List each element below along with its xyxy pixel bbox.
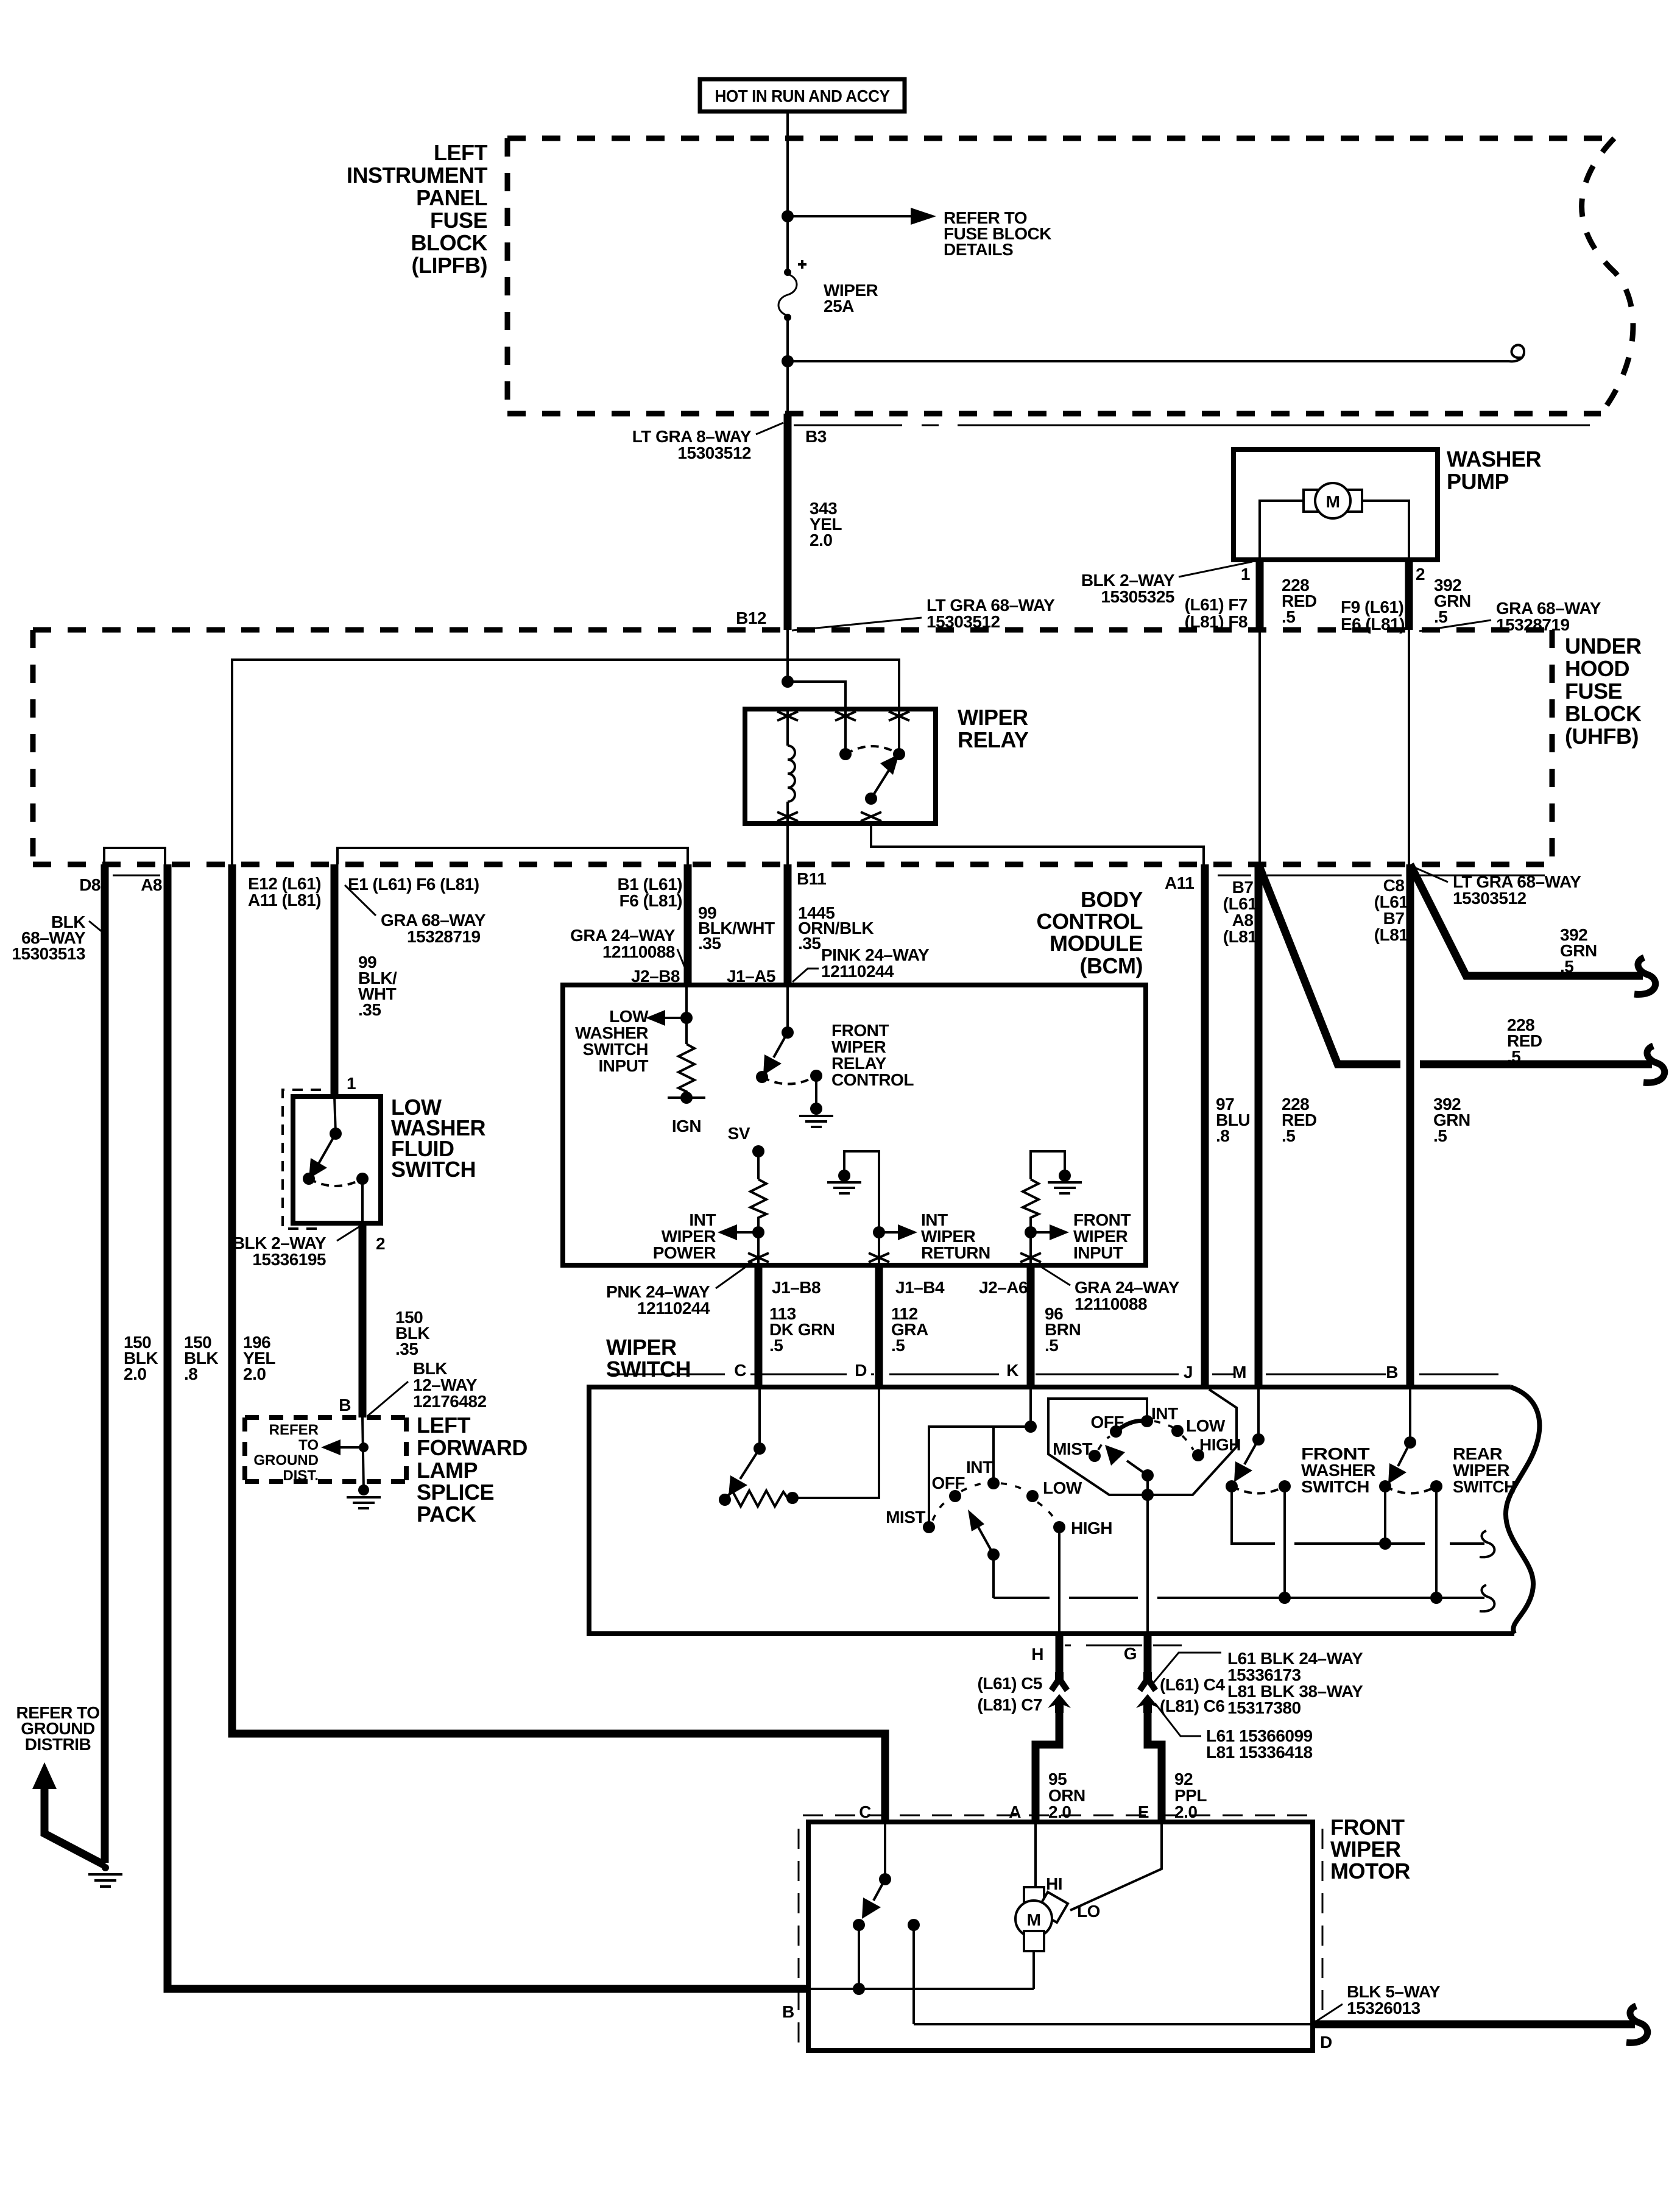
svg-text:1: 1 <box>347 1074 356 1093</box>
svg-text:H: H <box>1031 1645 1043 1664</box>
svg-text:B11: B11 <box>797 869 826 888</box>
wire E12 run to motor C <box>232 864 885 1822</box>
inline connector H male arrow <box>1048 1694 1071 1713</box>
wire B12 feed inside UHFB <box>786 630 789 683</box>
svg-text:A8: A8 <box>141 875 162 894</box>
svg-text:LAMP: LAMP <box>417 1458 478 1483</box>
wire pin H stub <box>1056 1636 1064 1678</box>
wire wiper return line <box>994 1585 1494 1611</box>
svg-text:15326013: 15326013 <box>1347 1999 1421 2018</box>
connector label BLK 2-WAY 15305325 <box>1081 562 1252 606</box>
svg-text:J2–A6: J2–A6 <box>979 1278 1028 1297</box>
terminal IGN <box>668 1092 705 1135</box>
connector face lines below wiper switch <box>1065 1645 1182 1647</box>
wire rear right contact drop <box>1435 1486 1438 1598</box>
pin labels B7 (L61) A8 (L81) <box>1223 878 1262 946</box>
wire front washer right contact drop <box>1283 1486 1286 1598</box>
ground BCM int wiper return <box>827 1151 879 1232</box>
svg-text:B: B <box>339 1396 351 1414</box>
svg-text:2.0: 2.0 <box>810 531 832 549</box>
svg-text:HI: HI <box>1046 1874 1062 1893</box>
svg-text:(L61) F7: (L61) F7 <box>1185 595 1248 614</box>
pin X mark BCM J1-B4 <box>869 1253 889 1262</box>
pin labels F9 (L61) E6 (L81) <box>1341 598 1405 634</box>
fuse WIPER 25A <box>778 260 878 321</box>
svg-text:(L61) C5: (L61) C5 <box>978 1674 1042 1693</box>
connector label LT GRA 68-WAY 15303512 at B12 <box>792 596 1055 631</box>
rear wiper switch feed from pin B <box>1388 1389 1416 1484</box>
connector face lines above wiper switch <box>609 1374 1498 1375</box>
connector face lines below UHFB <box>113 875 1545 877</box>
svg-text:HIGH: HIGH <box>1199 1435 1241 1454</box>
svg-text:WIPER: WIPER <box>606 1335 677 1360</box>
svg-text:WIPER: WIPER <box>958 705 1028 730</box>
svg-text:RELAY: RELAY <box>958 727 1029 752</box>
svg-text:2: 2 <box>376 1234 385 1253</box>
pin labels E12 (L61) A11 (L81) <box>248 874 321 909</box>
svg-text:.5: .5 <box>1433 1126 1447 1145</box>
ground BCM front wiper input <box>1048 1170 1082 1193</box>
svg-text:2.0: 2.0 <box>1174 1802 1197 1821</box>
pin labels (L61) F7 (L81) F8 <box>1185 595 1248 631</box>
svg-text:(BCM): (BCM) <box>1080 953 1143 978</box>
splice pack dashed box <box>245 1417 406 1481</box>
svg-text:B3: B3 <box>805 427 827 446</box>
svg-text:M: M <box>1326 492 1340 511</box>
svg-text:FUSE: FUSE <box>430 208 487 233</box>
svg-text:LOW: LOW <box>1043 1478 1082 1497</box>
connector label LT GRA 68-WAY 15303512 at C8 <box>1414 867 1581 908</box>
wire 228 RED .5 (B7 to M) <box>1258 864 1317 1385</box>
dashed outline motor box <box>799 1815 1322 2044</box>
washer pump box <box>1234 447 1542 560</box>
wire D8 ground run <box>101 864 109 1863</box>
wire label 1445 ORN/BLK .35 <box>798 903 874 953</box>
svg-text:15328719: 15328719 <box>407 927 481 946</box>
wire label 150 BLK .35 <box>395 1308 429 1358</box>
wire motor bottom brush to B <box>811 1951 1034 1995</box>
relay fixed contact left <box>839 709 852 760</box>
svg-text:SV: SV <box>728 1124 750 1143</box>
svg-text:12110244: 12110244 <box>821 962 894 981</box>
connector face line below LIPFB <box>794 425 1590 426</box>
wire 92 PPL 2.0 to motor E <box>1148 1709 1162 1822</box>
svg-text:BLOCK: BLOCK <box>1565 701 1642 726</box>
detent switch left arrow <box>968 1509 1000 1561</box>
connector bracket E1 B1 <box>337 848 688 864</box>
wire washer pump pin1 inside UHFB <box>1258 630 1261 864</box>
wire motor A to HI brush <box>1034 1824 1037 1887</box>
detent switch right arrow <box>1105 1445 1154 1481</box>
svg-text:.8: .8 <box>1216 1126 1229 1145</box>
connector label BLK 68-WAY 15303513 <box>12 913 102 963</box>
svg-text:CONTROL: CONTROL <box>831 1070 914 1089</box>
wire label 99 BLK/ WHT .35 (E1) <box>358 953 397 1019</box>
wire label 150 BLK 2.0 <box>124 1333 158 1383</box>
svg-text:J1–B4: J1–B4 <box>895 1278 945 1297</box>
front washer switch contacts <box>1226 1444 1375 1496</box>
connector label GRA 68-WAY 15328719 <box>1419 599 1601 634</box>
pin X mark relay bottom right <box>861 812 881 821</box>
module box BCM <box>563 887 1146 1265</box>
svg-text:15303512: 15303512 <box>1453 889 1526 908</box>
resistor BCM washer input <box>679 1044 694 1098</box>
svg-text:G: G <box>1124 1644 1137 1663</box>
UHFB title <box>1565 634 1642 749</box>
wire 96 BRN .5 <box>1031 1268 1081 1385</box>
svg-text:(LIPFB): (LIPFB) <box>412 253 487 278</box>
washer switch feed from pin M <box>1234 1389 1265 1482</box>
svg-text:C: C <box>859 1802 871 1821</box>
inline connector G female <box>1137 1672 1158 1692</box>
pin X mark relay bottom left <box>777 812 798 821</box>
wire label 92 PPL 2.0 <box>1174 1770 1207 1821</box>
relay coil <box>788 709 795 824</box>
pin labels D8 A8 <box>79 875 162 894</box>
wire left detent common to return line <box>992 1555 995 1598</box>
motor M washer pump <box>1304 483 1362 518</box>
delay resistor circuit from pin C <box>729 1389 766 1496</box>
svg-text:E1 (L61) F6 (L81): E1 (L61) F6 (L81) <box>348 875 479 894</box>
wire BLK 5-WAY out of pin D <box>1313 2006 1648 2042</box>
wire label 196 YEL 2.0 <box>243 1333 275 1383</box>
svg-text:INPUT: INPUT <box>599 1056 649 1075</box>
svg-text:REFER: REFER <box>269 1422 319 1438</box>
pin 2 stub washer pump <box>1405 560 1413 630</box>
fuse block UHFB dashed box <box>33 630 1552 864</box>
svg-text:F9 (L61): F9 (L61) <box>1341 598 1403 616</box>
svg-text:15336195: 15336195 <box>252 1250 326 1269</box>
wire washer out line continued <box>1294 1531 1494 1557</box>
svg-text:2.0: 2.0 <box>1048 1802 1071 1821</box>
wire A8 ground run <box>168 864 808 1989</box>
svg-text:K: K <box>1006 1361 1018 1380</box>
wire 392 GRN .5 branch to rear washer feed <box>1410 864 1656 994</box>
svg-text:.8: .8 <box>184 1364 197 1383</box>
BCM front wiper relay control driver <box>756 987 914 1089</box>
svg-text:SWITCH: SWITCH <box>391 1157 476 1182</box>
svg-text:15317380: 15317380 <box>1227 1698 1301 1717</box>
svg-text:2: 2 <box>1416 565 1425 584</box>
motor M front wiper <box>1015 1874 1100 1951</box>
wire washer pump motor to pin 2 <box>1362 501 1409 559</box>
svg-text:A11: A11 <box>1165 874 1194 892</box>
connector label LT GRA 8-WAY 15303512 <box>632 423 783 462</box>
svg-text:LEFT: LEFT <box>434 140 487 165</box>
svg-text:2.0: 2.0 <box>124 1364 146 1383</box>
resistor BCM front wiper input <box>1023 1151 1065 1232</box>
wire K to detent common <box>929 1389 1037 1527</box>
svg-text:MIST: MIST <box>1053 1439 1092 1458</box>
svg-text:WIPER: WIPER <box>1330 1837 1401 1862</box>
svg-text:.35: .35 <box>395 1340 418 1358</box>
svg-text:C: C <box>734 1361 746 1380</box>
pin X mark BCM J2-A6 <box>1020 1253 1041 1262</box>
svg-text:.35: .35 <box>798 934 821 953</box>
resistor wiper delay <box>719 1389 879 1506</box>
svg-text:(UHFB): (UHFB) <box>1565 724 1639 749</box>
node junction to long feed wire <box>782 355 794 367</box>
svg-text:PACK: PACK <box>417 1502 476 1527</box>
svg-text:HOT IN RUN AND ACCY: HOT IN RUN AND ACCY <box>715 86 891 105</box>
svg-text:(L81) C6: (L81) C6 <box>1160 1696 1224 1715</box>
splice node and arrow <box>321 1417 369 1490</box>
svg-text:LOW: LOW <box>1186 1416 1226 1435</box>
svg-text:M: M <box>1027 1910 1041 1929</box>
svg-text:INSTRUMENT: INSTRUMENT <box>347 163 487 188</box>
node INT WIPER RETURN arrow <box>873 1210 990 1263</box>
svg-text:FUSE: FUSE <box>1565 679 1622 704</box>
power label HOT IN RUN AND ACCY <box>700 79 905 111</box>
svg-text:D: D <box>1320 2033 1332 2052</box>
svg-text:DIST.: DIST. <box>283 1467 319 1484</box>
inline connector G male arrow <box>1136 1694 1159 1713</box>
svg-text:HOOD: HOOD <box>1565 656 1629 681</box>
svg-text:MODULE: MODULE <box>1050 931 1143 956</box>
wire long feed inside LIPFB with curl end <box>788 345 1524 361</box>
pin B11 stub <box>784 864 792 985</box>
wire front washer left contact to out line <box>1232 1486 1275 1544</box>
motor park switch from pin C <box>853 1824 920 2024</box>
pin 1 stub washer pump <box>1256 560 1264 630</box>
connector label PNK 24-WAY 12110244 <box>606 1262 752 1318</box>
connector label PINK 24-WAY 12110244 upper <box>792 945 930 982</box>
svg-text:UNDER: UNDER <box>1565 634 1642 658</box>
arrow refer to fuse block details <box>788 208 1051 259</box>
octagon link J to right detent INT <box>1048 1389 1237 1495</box>
svg-text:DETAILS: DETAILS <box>944 240 1013 259</box>
connector label GRA 24-WAY 12110088 lower <box>1036 1263 1180 1313</box>
svg-text:.5: .5 <box>1282 1126 1295 1145</box>
svg-text:.35: .35 <box>358 1000 381 1019</box>
ground left distribution <box>88 1864 122 1887</box>
splice pack title LEFT FORWARD LAMP SPLICE PACK <box>417 1413 528 1527</box>
wire washer pump pin2 inside UHFB <box>1408 630 1410 864</box>
wire 228 RED .5 branch to washer switch feed <box>1258 864 1665 1082</box>
connector label L61 15366099 L81 15336418 <box>1155 1703 1313 1762</box>
wire 113 DK GRN .5 <box>758 1268 835 1385</box>
ground splice pack <box>347 1485 381 1508</box>
svg-text:FORWARD: FORWARD <box>417 1435 528 1460</box>
wire label 343 YEL 2.0 <box>810 499 842 549</box>
svg-text:INT: INT <box>966 1458 993 1477</box>
wire 95 ORN 2.0 to motor A <box>1036 1709 1059 1822</box>
svg-text:GROUND: GROUND <box>253 1452 319 1469</box>
svg-text:A: A <box>1009 1802 1021 1821</box>
fuse block LIPFB dashed box <box>507 138 1633 414</box>
svg-text:PANEL: PANEL <box>416 185 487 210</box>
connector labels (L61) C5 (L81) C7 <box>978 1674 1042 1714</box>
pin X mark relay top mid <box>835 711 856 721</box>
svg-text:RETURN: RETURN <box>921 1243 990 1262</box>
low washer switch internals <box>303 1096 369 1223</box>
svg-text:15303513: 15303513 <box>12 944 85 963</box>
svg-text:.5: .5 <box>891 1336 905 1355</box>
connector label BLK 2-WAY 15336195 <box>233 1226 360 1269</box>
svg-text:MOTOR: MOTOR <box>1330 1859 1410 1883</box>
wire E1 run 99 BLK/WHT <box>331 864 339 1096</box>
svg-text:12110088: 12110088 <box>602 942 675 961</box>
svg-text:D: D <box>855 1361 867 1380</box>
svg-text:.5: .5 <box>1434 607 1447 626</box>
resistor BCM int wiper power <box>750 1179 766 1232</box>
arrow REFER TO GROUND DISTRIB <box>16 1703 105 1865</box>
motor box FRONT WIPER MOTOR <box>808 1815 1410 2050</box>
svg-text:15305325: 15305325 <box>1101 587 1174 606</box>
wire 97 BLU .8 (A11 to J) <box>1205 864 1250 1385</box>
wire label 392 GRN .5 (pin2) <box>1434 576 1471 626</box>
svg-text:12110244: 12110244 <box>637 1299 710 1318</box>
terminal SV <box>728 1124 764 1179</box>
wire right detent common to pin G <box>1142 1475 1154 1636</box>
svg-text:FRONT: FRONT <box>1330 1815 1405 1840</box>
connector label BLK 5-WAY 15326013 <box>1315 1982 1441 2022</box>
svg-text:SWITCH: SWITCH <box>1453 1477 1516 1496</box>
wire rear left contact drop <box>1384 1486 1386 1544</box>
svg-text:.5: .5 <box>1560 957 1573 976</box>
wire motor E to LO brush <box>1070 1824 1162 1910</box>
svg-text:INPUT: INPUT <box>1073 1243 1123 1262</box>
svg-text:.5: .5 <box>769 1336 783 1355</box>
svg-text:B: B <box>1386 1363 1398 1382</box>
svg-text:SWITCH: SWITCH <box>606 1357 691 1382</box>
wire label 99 BLK/WHT .35 (B1) <box>698 903 775 953</box>
svg-text:L81 15336418: L81 15336418 <box>1206 1743 1313 1762</box>
inline connector H female <box>1049 1672 1070 1692</box>
svg-text:F6 (L81): F6 (L81) <box>619 891 682 910</box>
svg-text:(L61) C4: (L61) C4 <box>1160 1675 1225 1694</box>
wire relay output to A11 <box>871 824 1204 864</box>
svg-text:A11 (L81): A11 (L81) <box>248 891 321 909</box>
relay armature arrow <box>865 754 899 805</box>
pin 2 stub low washer switch <box>359 1223 367 1417</box>
connector label GRA 24-WAY 12110088 upper <box>570 926 689 978</box>
wire E12 riser inside UHFB <box>232 660 899 864</box>
ground BCM relay control <box>799 1076 833 1127</box>
pin X mark BCM J1-B8 <box>748 1253 769 1262</box>
wire junction to relay coil contact <box>788 682 845 709</box>
svg-text:B12: B12 <box>736 609 766 627</box>
dashed bracket low washer switch <box>283 1090 321 1229</box>
switch box WIPER SWITCH <box>589 1335 1539 1634</box>
svg-text:MIST: MIST <box>886 1508 925 1527</box>
node FRONT WIPER INPUT arrow <box>1025 1210 1131 1263</box>
wire label 95 ORN 2.0 <box>1048 1770 1085 1821</box>
node junction to fuse details arrow <box>782 210 794 222</box>
svg-text:M: M <box>1232 1363 1246 1382</box>
pin labels B1 (L61) F6 (L81) <box>618 875 682 910</box>
relay fixed contact right <box>893 709 905 760</box>
svg-text:B: B <box>782 2002 794 2021</box>
wire relay common to B11 <box>786 824 789 864</box>
svg-text:OFF: OFF <box>932 1474 965 1492</box>
svg-text:25A: 25A <box>824 297 854 316</box>
svg-text:SPLICE: SPLICE <box>417 1480 494 1505</box>
LIPFB title <box>347 140 488 278</box>
svg-text:.5: .5 <box>1507 1047 1520 1066</box>
connector labels (L61) C4 (L81) C6 <box>1160 1675 1225 1715</box>
svg-text:D8: D8 <box>79 875 101 894</box>
relay box WIPER RELAY <box>745 705 1029 824</box>
svg-text:.5: .5 <box>1282 607 1295 626</box>
wire pin G stub <box>1144 1636 1152 1678</box>
svg-text:12110088: 12110088 <box>1075 1294 1147 1313</box>
wire B1 to BCM J2-B8 <box>684 864 692 985</box>
rear wiper switch contacts <box>1379 1444 1516 1496</box>
wire park to pin D <box>914 2023 1310 2025</box>
svg-text:12176482: 12176482 <box>413 1392 487 1411</box>
svg-text:2.0: 2.0 <box>243 1364 266 1383</box>
connector label L61 BLK 24-WAY 15336173 L81 BLK 38-WAY 15317380 <box>1154 1649 1363 1717</box>
wire 343 YEL 2.0 (B3 to B12) <box>784 414 792 630</box>
wire 392 GRN .5 (C8 to B) <box>1410 864 1470 1385</box>
svg-text:DISTRIB: DISTRIB <box>25 1735 91 1754</box>
pin X mark relay top left <box>777 711 798 721</box>
pin X mark relay top right <box>889 711 909 721</box>
svg-text:J: J <box>1184 1363 1193 1382</box>
splice pack text REFER TO GROUND DIST. <box>253 1422 319 1484</box>
switch box LOW WASHER FLUID SWITCH <box>293 1095 486 1223</box>
svg-text:BODY: BODY <box>1081 887 1143 912</box>
svg-text:WASHER: WASHER <box>1447 447 1542 471</box>
connector label GRA 68-WAY 15328719 left <box>345 885 486 946</box>
svg-text:.35: .35 <box>698 934 721 953</box>
detent switch left group contacts <box>886 1458 1112 1537</box>
svg-text:BLOCK: BLOCK <box>411 230 488 255</box>
svg-text:(L81) C7: (L81) C7 <box>978 1695 1042 1714</box>
svg-text:1: 1 <box>1241 565 1250 584</box>
relay contact dashed arc <box>845 746 899 754</box>
svg-text:E: E <box>1138 1802 1149 1821</box>
svg-text:POWER: POWER <box>653 1243 716 1262</box>
svg-text:J1–B8: J1–B8 <box>772 1278 821 1297</box>
wire from HOT box into LIPFB <box>786 111 789 270</box>
wire label 228 RED .5 (pin1) <box>1282 576 1317 626</box>
node relay feed junction <box>782 676 794 688</box>
connector bracket D8 A8 <box>104 848 165 864</box>
pin labels C8 (L61) B7 (L81) <box>1374 876 1413 944</box>
wire 112 GRA .5 <box>879 1268 928 1385</box>
svg-text:PUMP: PUMP <box>1447 469 1509 494</box>
wire HIGH contact to pin H <box>1058 1527 1061 1636</box>
svg-text:LEFT: LEFT <box>417 1413 470 1438</box>
wire fuse to lower junction <box>786 317 789 414</box>
svg-text:HIGH: HIGH <box>1071 1519 1112 1537</box>
svg-text:15303512: 15303512 <box>677 443 751 462</box>
svg-text:CONTROL: CONTROL <box>1037 909 1143 934</box>
wire label 150 BLK .8 <box>184 1333 218 1383</box>
svg-text:IGN: IGN <box>672 1117 701 1135</box>
connector label BLK 12-WAY 12176482 <box>368 1359 487 1416</box>
svg-text:.5: .5 <box>1045 1336 1058 1355</box>
svg-text:INT: INT <box>1151 1404 1178 1423</box>
wire washer pump motor to pin 1 <box>1260 501 1304 559</box>
svg-text:OFF: OFF <box>1091 1413 1124 1432</box>
BCM low washer switch input circuit <box>575 987 693 1075</box>
detent switch right group contacts <box>1053 1404 1241 1462</box>
node INT WIPER POWER arrow <box>653 1210 764 1263</box>
svg-text:SWITCH: SWITCH <box>1301 1477 1369 1496</box>
svg-text:TO: TO <box>298 1437 319 1453</box>
